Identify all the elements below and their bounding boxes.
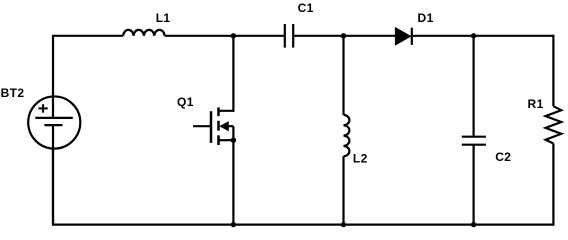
wire right vertical R1 to bottom rail (53, 144, 553, 225)
wire battery negative to bottom rail (52, 125, 54, 225)
svg-text:C1: C1 (298, 1, 314, 15)
resistor R1 (546, 106, 562, 143)
wire top rail L1 to C1 (165, 35, 284, 37)
junction node drain/top-rail (231, 33, 236, 38)
battery BT2 (28, 96, 80, 148)
svg-text:C2: C2 (495, 150, 511, 164)
gate lead (193, 125, 211, 127)
svg-text:L1: L1 (156, 11, 171, 25)
channel segment top (217, 107, 220, 116)
svg-text:D1: D1 (418, 11, 434, 25)
gate bar (210, 111, 213, 143)
svg-text:BT2: BT2 (1, 86, 25, 100)
wire top rail C1 to D1 (294, 35, 395, 37)
wire C2 top (473, 36, 475, 137)
wire L2 bottom (342, 156, 344, 224)
junction node Q1-source/bottom-rail (231, 222, 236, 227)
wire left vertical top (battery + to top rail) (53, 36, 123, 118)
svg-text:R1: R1 (528, 97, 544, 111)
channel segment middle (217, 121, 220, 131)
channel segment bottom (217, 135, 220, 145)
junction node C1/L2 (341, 33, 346, 38)
junction node L2/bottom-rail (341, 222, 346, 227)
diode D1 (395, 28, 411, 45)
source lead (219, 139, 234, 141)
svg-text:Q1: Q1 (177, 95, 194, 109)
transistor Q1 (193, 36, 236, 225)
junction node source/body (231, 138, 236, 143)
wire top rail D1 to right corner (413, 36, 554, 106)
inductor L1 (123, 30, 164, 36)
junction node D1/C2 (471, 33, 476, 38)
capacitor C1 (285, 24, 293, 48)
capacitor C2 (462, 137, 486, 145)
drain lead (219, 36, 234, 111)
body lead with arrow (221, 125, 233, 127)
svg-text:L2: L2 (353, 151, 368, 165)
inductor L2 (344, 115, 350, 156)
source vertical to bottom rail (232, 126, 234, 224)
wire L2 top (342, 36, 344, 115)
wire C2 bottom (473, 145, 475, 225)
junction node C2/bottom-rail (471, 222, 476, 227)
